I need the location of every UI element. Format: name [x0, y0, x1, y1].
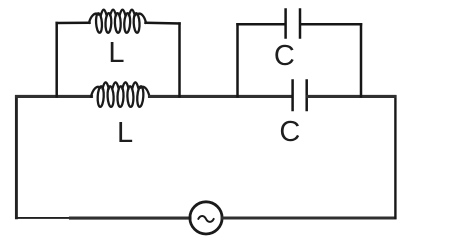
- svg-text:C: C: [279, 116, 300, 148]
- right branch right edge: [360, 24, 363, 96]
- inductor L1 coil (left branch): [89, 10, 146, 33]
- AC source: [190, 202, 222, 234]
- wire: main top, left segment: [17, 95, 92, 98]
- left branch left edge: [55, 23, 58, 96]
- capacitor C2 left plate: [291, 81, 294, 111]
- wire: main top, right of capacitor C2: [308, 95, 395, 98]
- left branch right edge: [178, 24, 181, 97]
- wire: main loop right edge: [394, 96, 396, 217]
- capacitor C2 right plate: [305, 81, 308, 111]
- wire: main loop bottom, left of source: [71, 217, 191, 220]
- left branch wire from coil L1 to corner: [146, 22, 180, 25]
- right branch top wire to capacitor C1: [238, 23, 285, 26]
- svg-text:C: C: [274, 40, 295, 72]
- capacitor C1 left plate: [284, 10, 287, 38]
- svg-text:L: L: [117, 117, 133, 149]
- wire: main loop left edge: [15, 96, 18, 217]
- capacitor C1 right plate: [299, 10, 302, 38]
- left branch top wire to coil L1: [57, 21, 90, 24]
- svg-text:L: L: [108, 37, 124, 69]
- wire: main top, between coil L2 and capacitor C2: [150, 95, 292, 98]
- wire: main loop bottom, thin left segment: [17, 217, 73, 219]
- wire: main loop bottom, right of source: [222, 216, 395, 219]
- right branch left edge: [236, 24, 239, 96]
- right branch top wire right of capacitor C1: [301, 23, 361, 26]
- inductor L2 coil (main wire): [91, 82, 150, 107]
